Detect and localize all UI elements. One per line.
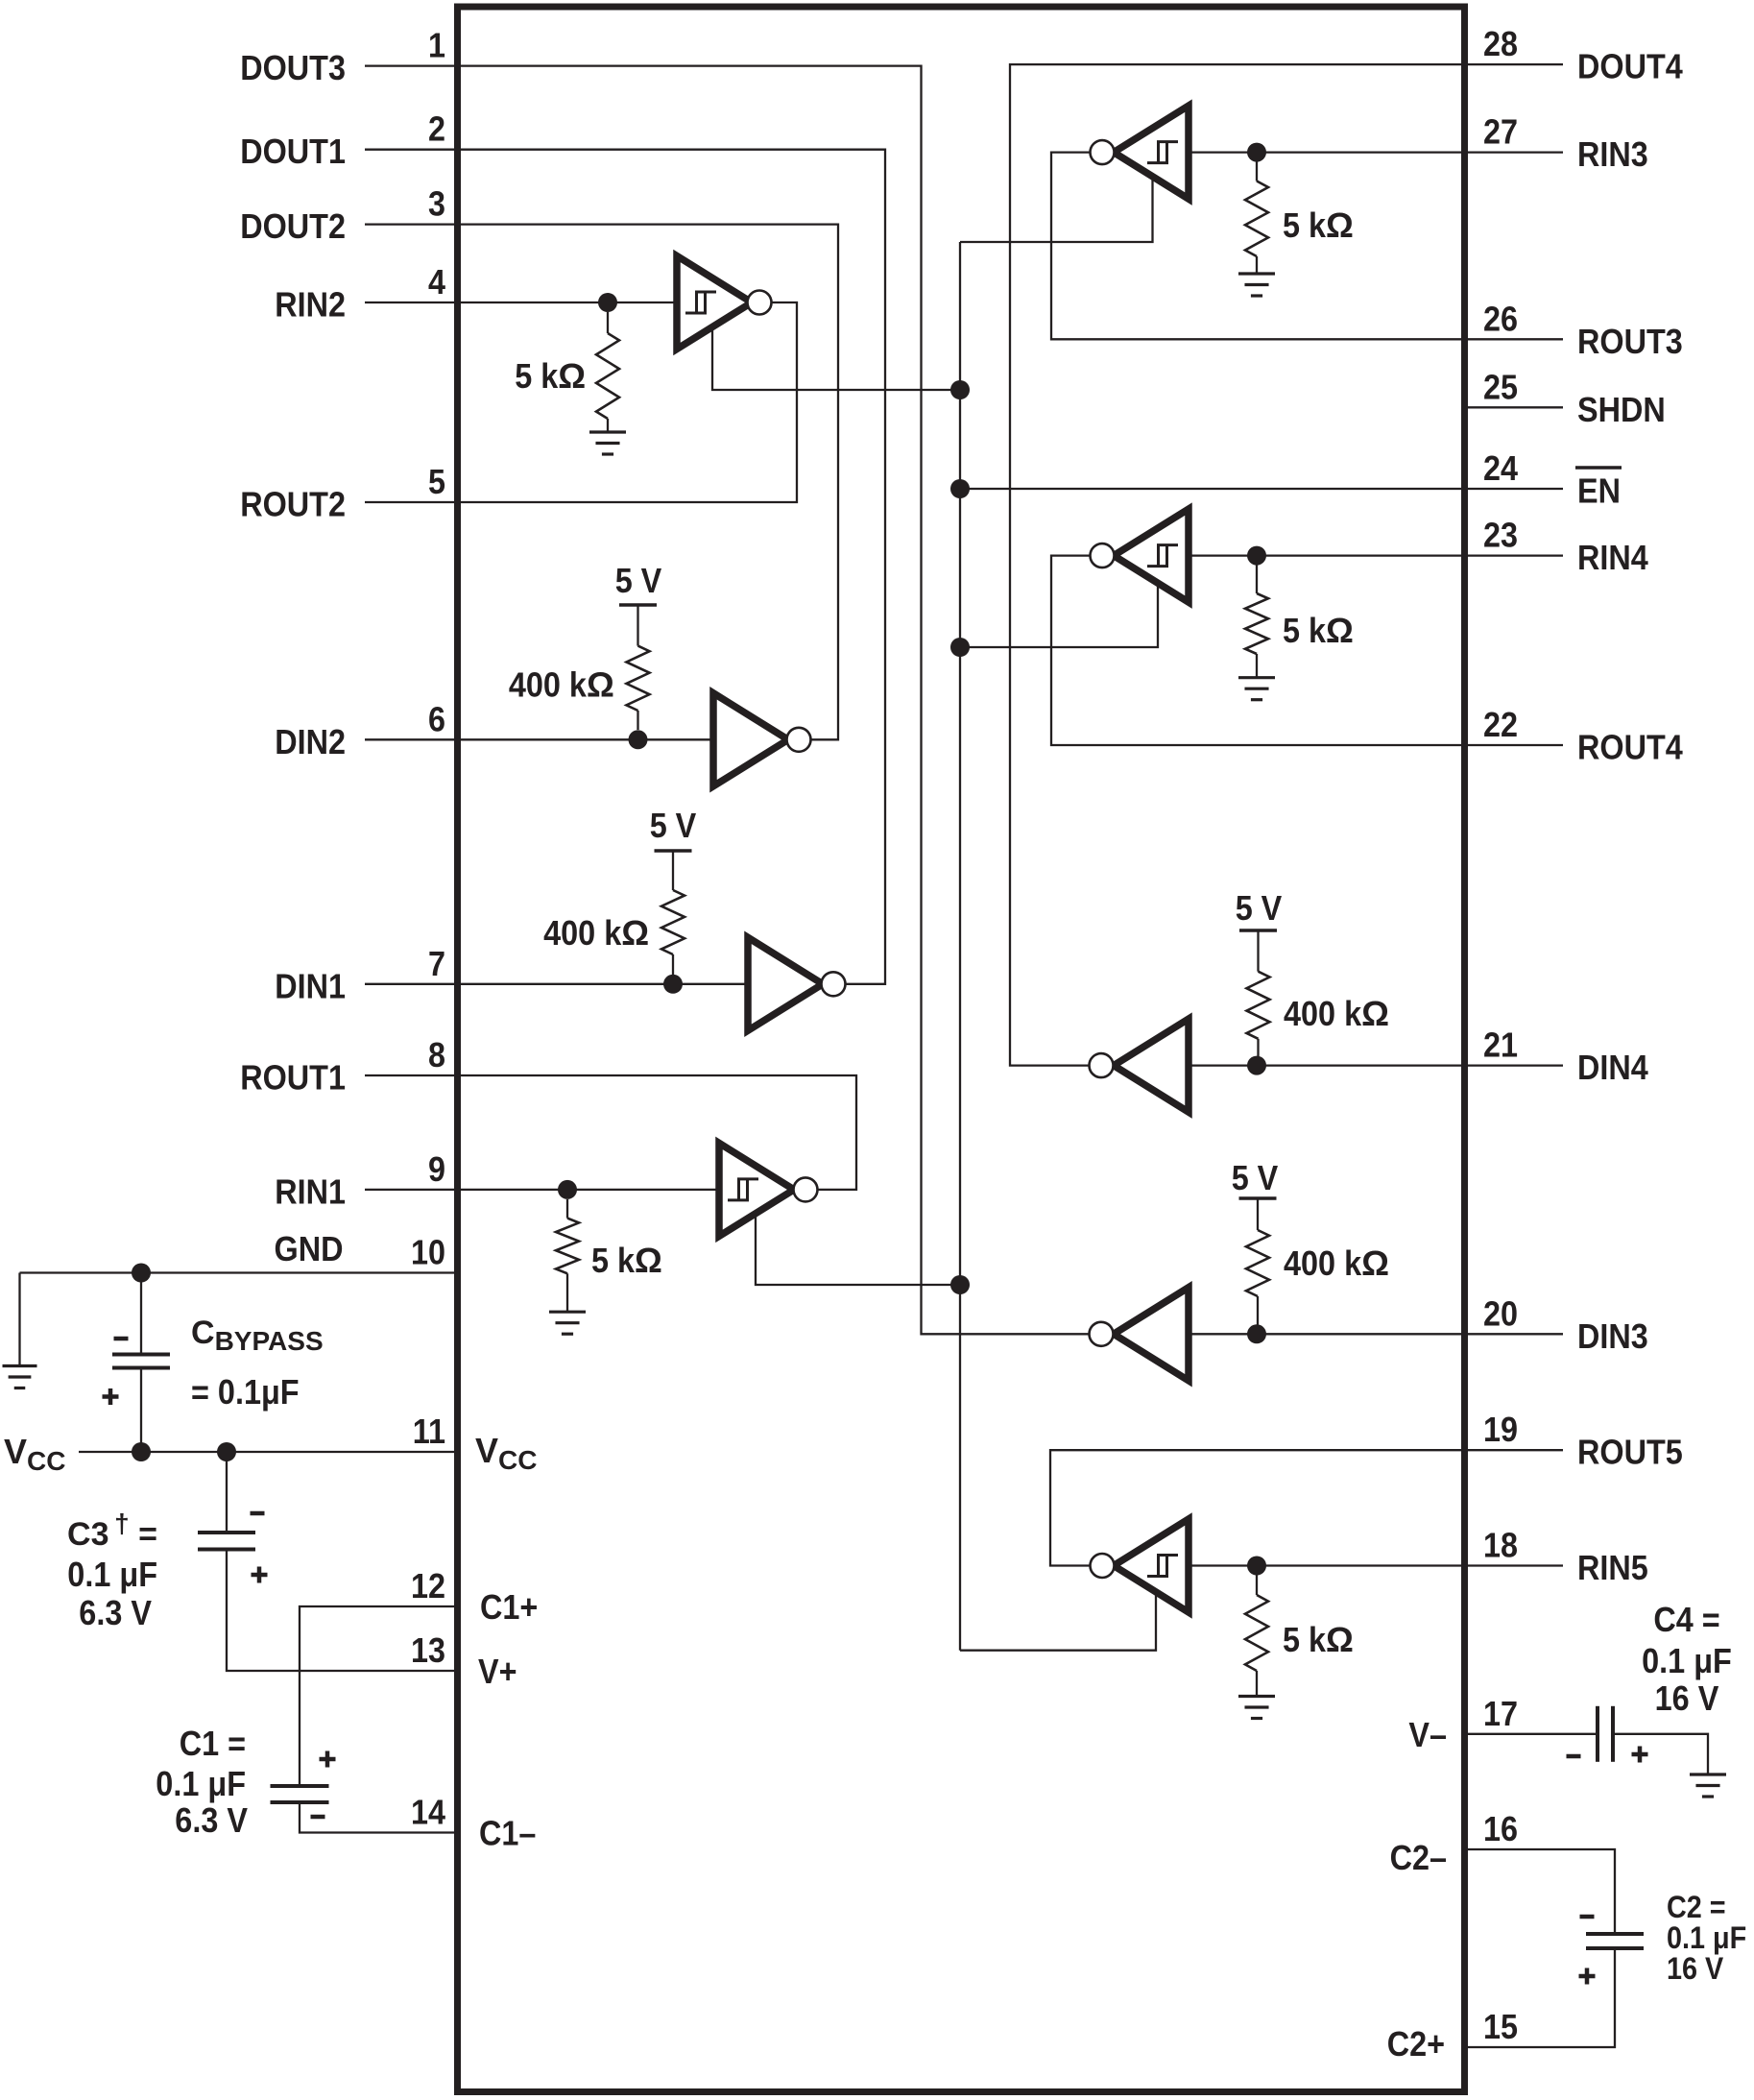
svg-text:0.1 μF: 0.1 μF [67,1555,157,1594]
svg-text:24: 24 [1483,448,1518,488]
junction RIN3 input node [1247,143,1266,162]
junction bus / RIN1 enable [950,1275,970,1294]
svg-text:DOUT3: DOUT3 [240,48,346,87]
svg-text:Ω: Ω [635,1241,662,1280]
svg-text:RIN4: RIN4 [1577,538,1648,577]
svg-text:26: 26 [1483,299,1518,338]
svg-text:13: 13 [411,1630,445,1670]
svg-text:RIN5: RIN5 [1577,1548,1648,1587]
svg-text:27: 27 [1483,112,1518,152]
svg-text:Ω: Ω [1326,1620,1354,1659]
ground pin10 GND [3,1364,37,1367]
receiver buffer RIN4->ROUT4 [1114,509,1189,602]
svg-text:400 k: 400 k [1284,994,1362,1033]
svg-text:18: 18 [1483,1526,1518,1565]
wire pin25 SHDN stub [1465,406,1564,408]
wire RIN3 enable [960,180,1153,242]
svg-text:28: 28 [1483,24,1518,63]
driver buffer DIN1->DOUT1 [748,937,823,1030]
svg-text:6.3 V: 6.3 V [175,1800,248,1840]
svg-text:14: 14 [411,1793,445,1832]
junction DIN1 input node [663,975,683,994]
driver buffer DIN2->DOUT2 [713,693,788,786]
receiver buffer RIN3->ROUT3 [1114,106,1189,199]
svg-text:19: 19 [1483,1410,1518,1449]
wire pin7 DIN1 input [365,983,748,985]
svg-text:RIN2: RIN2 [275,285,346,325]
ground RIN4 resistor [1238,676,1275,679]
svg-text:16: 16 [1483,1809,1518,1848]
wire net ROUT3 from RIN3 output [1051,153,1563,340]
wire pin18 RIN5 input [1189,1564,1563,1566]
junction DIN2 input node [629,730,648,749]
svg-text:16 V: 16 V [1655,1678,1719,1718]
svg-text:C2+: C2+ [1387,2024,1445,2064]
svg-text:5 V: 5 V [1232,1158,1279,1197]
svg-text:11: 11 [413,1412,445,1451]
svg-text:1: 1 [428,26,445,65]
wire pin6 DIN2 input [365,738,713,740]
svg-text:ROUT3: ROUT3 [1577,322,1683,361]
receiver buffer RIN2->ROUT2 [677,256,752,350]
wire pin1 DOUT3 lead [365,64,458,66]
wire C4 to ground [1613,1734,1708,1774]
svg-text:5 k: 5 k [1283,611,1327,650]
svg-text:Ω: Ω [621,913,649,953]
wire CBYPASS top lead [140,1273,142,1354]
wire pin10 GND line [20,1271,458,1273]
svg-text:23: 23 [1483,516,1518,555]
resistor 5k RIN1 pulldown [566,1199,568,1219]
svg-text:C1+: C1+ [480,1587,538,1627]
wire C3 bottom lead to V+ [227,1550,458,1672]
svg-text:DIN4: DIN4 [1577,1048,1648,1087]
wire pin20 DIN3 input [1189,1333,1563,1335]
wire RIN4 enable [960,583,1158,647]
wire RIN5 enable [960,1593,1156,1651]
wire net ROUT1 from RIN1 output [458,1075,857,1190]
svg-text:20: 20 [1483,1293,1518,1333]
svg-text:400 k: 400 k [1284,1243,1362,1283]
svg-text:DOUT2: DOUT2 [240,206,346,246]
svg-text:22: 22 [1483,705,1518,744]
junction RIN4 input node [1247,546,1266,566]
svg-text:V+: V+ [478,1652,517,1691]
junction bus / EN [950,479,970,498]
capacitor C3 [198,1531,255,1534]
junction VCC / C3 [217,1442,236,1461]
svg-text:400 k: 400 k [543,913,622,953]
capacitor CBYPASS [112,1353,170,1357]
ground RIN3 resistor [1238,272,1275,275]
wire pin27 RIN3 input [1189,151,1563,153]
svg-text:ROUT4: ROUT4 [1577,728,1683,767]
wire GND symbol lead [18,1273,20,1365]
svg-text:5 k: 5 k [591,1241,636,1280]
svg-text:C4 =: C4 = [1653,1600,1719,1639]
wire net DOUT4 to DIN4 output [1010,64,1563,1066]
capacitor C2 [1586,1932,1644,1936]
wire pin4 RIN2 input [365,302,677,303]
svg-text:0.1 μF: 0.1 μF [1667,1920,1746,1955]
svg-text:Ω: Ω [587,665,614,705]
svg-text:DIN2: DIN2 [275,722,346,761]
svg-text:RIN1: RIN1 [275,1171,346,1211]
svg-text:ROUT1: ROUT1 [240,1058,346,1098]
svg-text:400 k: 400 k [509,665,588,705]
capacitor C1 [271,1784,329,1788]
svg-text:9: 9 [428,1149,445,1189]
wire net ROUT2 from RIN2 output [458,302,798,502]
junction RIN2 input node [598,293,617,312]
wire net ROUT5 from RIN5 output [1050,1450,1563,1565]
wire RIN1 enable [756,1214,960,1285]
svg-text:ROUT2: ROUT2 [240,485,346,524]
svg-text:SHDN: SHDN [1577,390,1666,429]
resistor 5k RIN5 pulldown [1256,1575,1258,1595]
svg-text:ROUT5: ROUT5 [1577,1433,1683,1472]
junction RIN1 input node [558,1180,577,1199]
wire C1 bottom lead pin14 [300,1802,458,1833]
svg-text:0.1 μF: 0.1 μF [156,1764,246,1803]
svg-text:6.3 V: 6.3 V [79,1593,152,1632]
svg-text:C2 =: C2 = [1667,1890,1726,1924]
svg-text:5 V: 5 V [650,806,697,845]
svg-text:2: 2 [428,109,445,149]
svg-text:Ω: Ω [1361,994,1389,1033]
wire C3 top lead [226,1452,228,1533]
resistor 400k DIN3 pullup [1239,1196,1277,1199]
wire net DOUT2 to DIN2 output [458,225,839,740]
svg-text:5 V: 5 V [615,561,662,600]
ground C4 [1690,1773,1726,1775]
wire pin23 RIN4 input [1189,554,1563,556]
wire pin9 RIN1 input [365,1189,719,1191]
svg-text:5: 5 [428,462,445,501]
resistor 5k RIN2 pulldown [607,312,609,333]
junction bus / RIN4 enable [950,638,970,657]
junction VCC / CBYPASS [132,1442,151,1461]
resistor 5k RIN3 pulldown [1256,161,1258,181]
junction DIN3 input node [1247,1324,1266,1343]
svg-text:Ω: Ω [1361,1243,1389,1283]
wire net DOUT1 to DIN1 output [458,150,886,984]
svg-text:12: 12 [411,1566,445,1605]
svg-text:GND: GND [275,1229,344,1268]
svg-text:4: 4 [428,262,445,302]
wire pin8 ROUT1 lead [365,1074,458,1076]
svg-text:RIN3: RIN3 [1577,134,1648,174]
IC body U1 TRS3238E outline [458,7,1465,2092]
svg-text:7: 7 [428,944,445,983]
svg-text:EN: EN [1577,471,1621,511]
svg-text:C1–: C1– [479,1814,536,1853]
svg-text:C1 =: C1 = [180,1724,246,1763]
junction DIN4 input node [1247,1056,1266,1075]
svg-text:Ω: Ω [558,356,586,396]
svg-text:5 V: 5 V [1236,888,1283,928]
wire pin5 ROUT2 [365,501,458,503]
resistor 400k DIN1 pullup [655,849,692,852]
wire pin16 C2- lead [1465,1849,1616,1934]
svg-text:6: 6 [428,699,445,738]
junction GND line / CBYPASS [132,1264,151,1283]
capacitor C4 [1596,1706,1599,1762]
svg-text:5 k: 5 k [1283,205,1327,245]
wire pin11 VCC line [79,1451,458,1453]
svg-text:DOUT4: DOUT4 [1577,47,1683,86]
svg-text:17: 17 [1483,1694,1518,1733]
wire RIN2 enable [712,326,960,390]
svg-text:V–: V– [1408,1715,1447,1754]
resistor 400k DIN2 pullup [619,603,657,606]
wire pin2 DOUT1 lead [365,149,458,151]
wire pin3 DOUT2 lead [365,223,458,225]
wire net DOUT3 to DIN3 output [458,66,1091,1335]
wire pin24 EN to enable bus [960,488,1563,490]
svg-text:15: 15 [1483,2007,1518,2046]
wire CBYPASS bottom lead [140,1367,142,1452]
svg-text:DOUT1: DOUT1 [240,132,346,171]
svg-text:0.1 μF: 0.1 μF [1642,1641,1732,1680]
svg-text:5 k: 5 k [1283,1620,1327,1659]
svg-text:16 V: 16 V [1667,1951,1724,1986]
junction RIN5 input node [1247,1557,1266,1576]
wire enable bus vertical [959,242,961,1651]
wire pin17 V- to C4 [1465,1733,1598,1735]
svg-text:10: 10 [411,1233,445,1272]
svg-text:DIN3: DIN3 [1577,1316,1648,1356]
resistor 400k DIN4 pullup [1239,929,1277,931]
svg-text:Ω: Ω [1326,611,1354,650]
svg-text:8: 8 [428,1035,445,1074]
ground RIN1 resistor [549,1311,586,1314]
svg-text:Ω: Ω [1326,205,1354,245]
svg-text:= 0.1μF: = 0.1μF [191,1372,300,1412]
resistor 5k RIN4 pulldown [1256,565,1258,593]
driver buffer DIN3->DOUT3 [1114,1288,1189,1381]
wire C2 bottom lead pin15 [1465,1948,1616,2047]
wire pin12 C1+ lead [300,1606,458,1786]
junction bus / RIN2 enable [950,380,970,399]
svg-text:21: 21 [1483,1026,1518,1065]
driver buffer DIN4->DOUT4 [1114,1019,1189,1112]
svg-text:5 k: 5 k [515,356,559,396]
ground RIN2 resistor [589,430,626,433]
wire net ROUT4 from RIN4 output [1051,556,1563,745]
receiver buffer RIN1->ROUT1 [719,1143,794,1236]
wire pin21 DIN4 input [1189,1064,1563,1066]
overline for EN label [1575,466,1622,470]
receiver buffer RIN5->ROUT5 [1114,1519,1189,1612]
svg-text:25: 25 [1483,367,1518,406]
svg-text:3: 3 [428,184,445,224]
ground RIN5 resistor [1238,1695,1275,1698]
svg-text:C2–: C2– [1390,1838,1447,1877]
svg-text:DIN1: DIN1 [275,966,346,1005]
